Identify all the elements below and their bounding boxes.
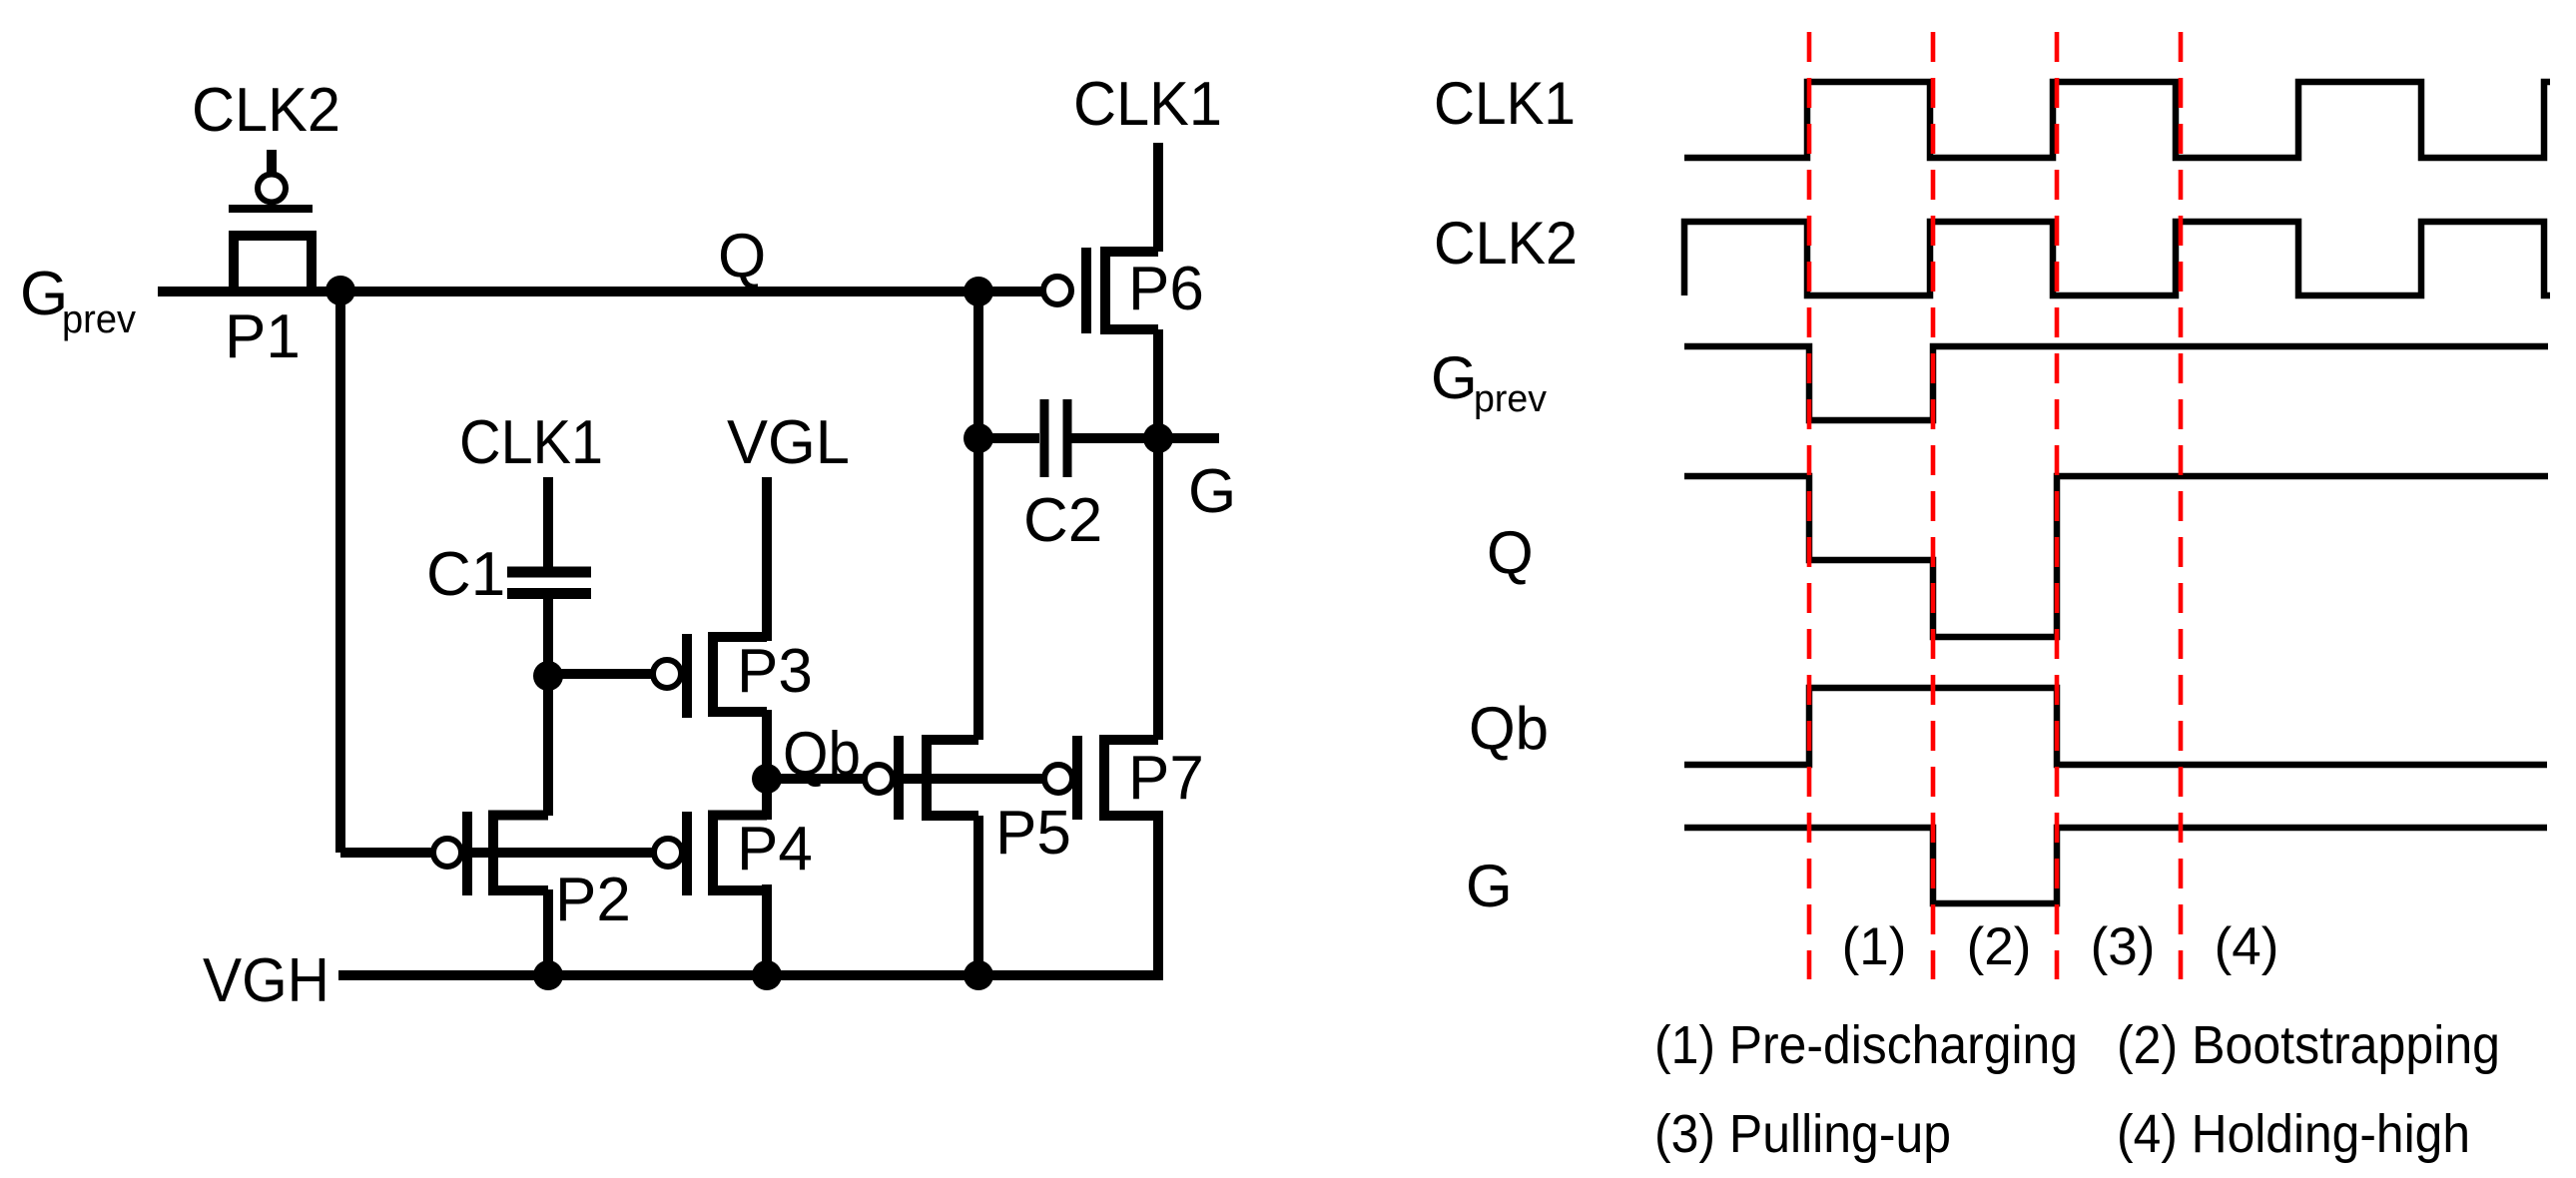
svg-text:P1: P1 — [225, 302, 301, 371]
svg-text:C1: C1 — [426, 540, 505, 609]
svg-text:CLK2: CLK2 — [1434, 210, 1578, 277]
svg-text:(1) Pre-discharging: (1) Pre-discharging — [1654, 1015, 2078, 1075]
svg-text:VGL: VGL — [727, 408, 850, 477]
svg-text:VGH: VGH — [203, 946, 329, 1015]
svg-text:(4): (4) — [2215, 917, 2279, 976]
svg-text:(3) Pulling-up: (3) Pulling-up — [1654, 1104, 1951, 1164]
svg-text:Q: Q — [1487, 519, 1534, 586]
svg-text:P7: P7 — [1128, 744, 1204, 813]
svg-text:Q: Q — [718, 222, 766, 291]
svg-text:(2) Bootstrapping: (2) Bootstrapping — [2117, 1015, 2500, 1075]
svg-text:prev: prev — [1474, 378, 1547, 420]
svg-text:G: G — [1466, 853, 1513, 919]
svg-text:G: G — [1188, 457, 1236, 526]
svg-text:CLK1: CLK1 — [1434, 70, 1576, 137]
svg-text:(1): (1) — [1842, 917, 1907, 976]
svg-text:C2: C2 — [1023, 486, 1102, 555]
svg-text:(3): (3) — [2091, 917, 2156, 976]
svg-text:P5: P5 — [995, 799, 1071, 868]
svg-text:prev: prev — [62, 297, 136, 341]
svg-text:Qb: Qb — [1469, 695, 1549, 762]
svg-text:(4) Holding-high: (4) Holding-high — [2117, 1104, 2470, 1164]
svg-text:(2): (2) — [1967, 917, 2032, 976]
svg-text:G: G — [1431, 344, 1478, 411]
svg-text:P2: P2 — [555, 866, 631, 934]
svg-text:G: G — [20, 260, 68, 328]
svg-text:CLK1: CLK1 — [459, 408, 603, 477]
svg-text:CLK2: CLK2 — [192, 76, 340, 145]
svg-text:CLK1: CLK1 — [1073, 70, 1222, 139]
svg-text:P4: P4 — [737, 815, 813, 883]
svg-text:P3: P3 — [737, 637, 813, 706]
svg-text:P6: P6 — [1128, 255, 1204, 323]
